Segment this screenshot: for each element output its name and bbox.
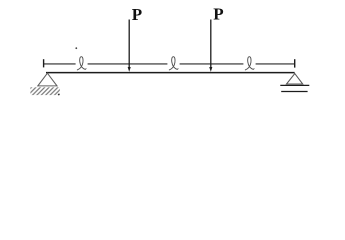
svg-text:P: P bbox=[213, 5, 223, 24]
svg-text:P: P bbox=[132, 5, 142, 24]
